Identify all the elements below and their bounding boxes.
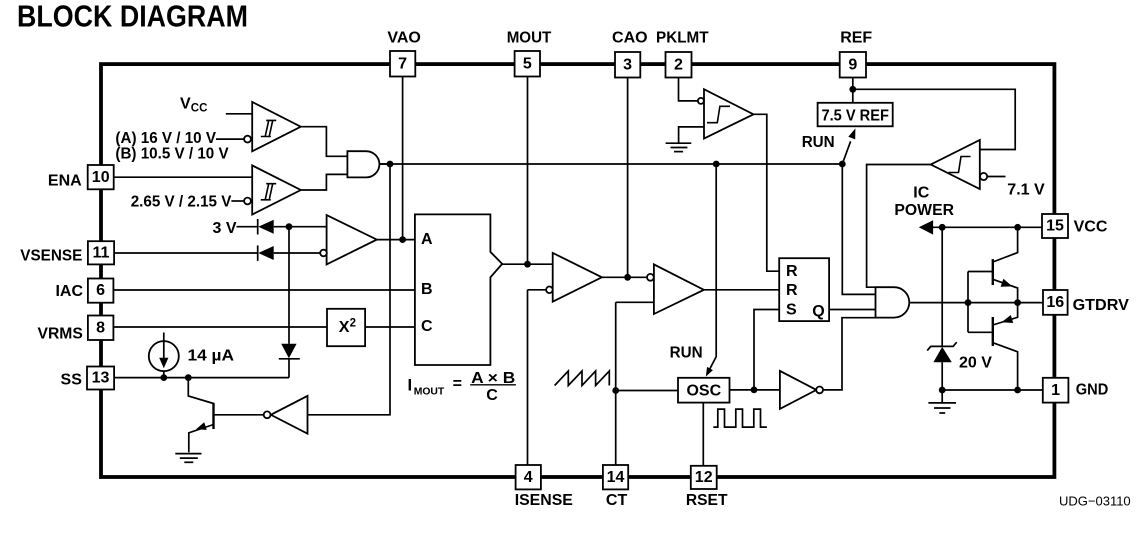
svg-text:OSC: OSC — [686, 383, 721, 400]
svg-text:1: 1 — [1051, 382, 1060, 399]
svg-text:CC: CC — [191, 103, 208, 115]
svg-text:VAO: VAO — [387, 30, 420, 47]
svg-text:6: 6 — [96, 282, 105, 299]
svg-text:GTDRV: GTDRV — [1073, 297, 1130, 314]
svg-text:RUN: RUN — [670, 345, 703, 362]
svg-text:C: C — [486, 387, 498, 404]
svg-text:3 V: 3 V — [213, 220, 237, 237]
svg-text:CAO: CAO — [612, 30, 648, 47]
svg-text:I: I — [408, 376, 413, 394]
svg-text:MOUT: MOUT — [507, 30, 552, 47]
svg-text:7.5 V REF: 7.5 V REF — [821, 108, 889, 125]
svg-text:Q: Q — [812, 303, 824, 320]
svg-text:C: C — [421, 318, 433, 335]
svg-text:POWER: POWER — [894, 202, 954, 219]
svg-text:16: 16 — [1046, 294, 1064, 311]
svg-text:ENA: ENA — [48, 173, 82, 190]
svg-text:2: 2 — [674, 56, 683, 73]
svg-text:GND: GND — [1076, 381, 1109, 398]
svg-text:S: S — [786, 302, 797, 319]
svg-text:ISENSE: ISENSE — [515, 492, 574, 509]
svg-text:8: 8 — [96, 319, 105, 336]
svg-text:13: 13 — [92, 370, 110, 387]
svg-text:2.65 V / 2.15 V: 2.65 V / 2.15 V — [131, 193, 232, 210]
svg-text:MOUT: MOUT — [414, 386, 445, 398]
svg-text:2: 2 — [350, 317, 356, 329]
svg-text:11: 11 — [93, 244, 110, 261]
svg-text:RSET: RSET — [686, 492, 728, 509]
svg-text:PKLMT: PKLMT — [656, 30, 709, 47]
svg-text:VCC: VCC — [1074, 219, 1108, 236]
svg-text:VSENSE: VSENSE — [20, 247, 82, 264]
svg-text:7.1 V: 7.1 V — [1007, 182, 1045, 199]
svg-text:UDG−03110: UDG−03110 — [1059, 494, 1131, 509]
svg-text:9: 9 — [848, 56, 857, 73]
svg-text:V: V — [180, 96, 191, 113]
svg-text:CT: CT — [606, 492, 628, 509]
svg-text:=: = — [453, 376, 462, 393]
svg-text:3: 3 — [623, 56, 632, 73]
svg-text:14 µA: 14 µA — [188, 348, 235, 365]
svg-text:14: 14 — [607, 469, 625, 486]
svg-text:BLOCK DIAGRAM: BLOCK DIAGRAM — [17, 0, 248, 33]
svg-text:R: R — [786, 263, 798, 280]
svg-text:VRMS: VRMS — [38, 325, 84, 342]
svg-text:R: R — [786, 282, 798, 299]
svg-text:(A) 16 V / 10 V: (A) 16 V / 10 V — [115, 130, 216, 147]
svg-text:X: X — [339, 319, 350, 336]
svg-text:A × B: A × B — [471, 370, 515, 387]
svg-text:IC: IC — [913, 185, 929, 202]
svg-text:7: 7 — [398, 55, 407, 72]
svg-text:B: B — [421, 281, 433, 298]
svg-text:10: 10 — [92, 169, 110, 186]
svg-text:12: 12 — [695, 469, 713, 486]
svg-text:20 V: 20 V — [959, 355, 992, 372]
svg-text:15: 15 — [1046, 218, 1064, 235]
svg-text:IAC: IAC — [55, 283, 83, 300]
svg-text:4: 4 — [524, 469, 533, 486]
svg-text:SS: SS — [61, 372, 83, 389]
svg-text:5: 5 — [523, 55, 532, 72]
svg-text:REF: REF — [840, 30, 872, 47]
svg-text:A: A — [421, 231, 433, 248]
svg-text:(B) 10.5 V / 10 V: (B) 10.5 V / 10 V — [115, 145, 229, 162]
svg-text:RUN: RUN — [802, 134, 835, 151]
